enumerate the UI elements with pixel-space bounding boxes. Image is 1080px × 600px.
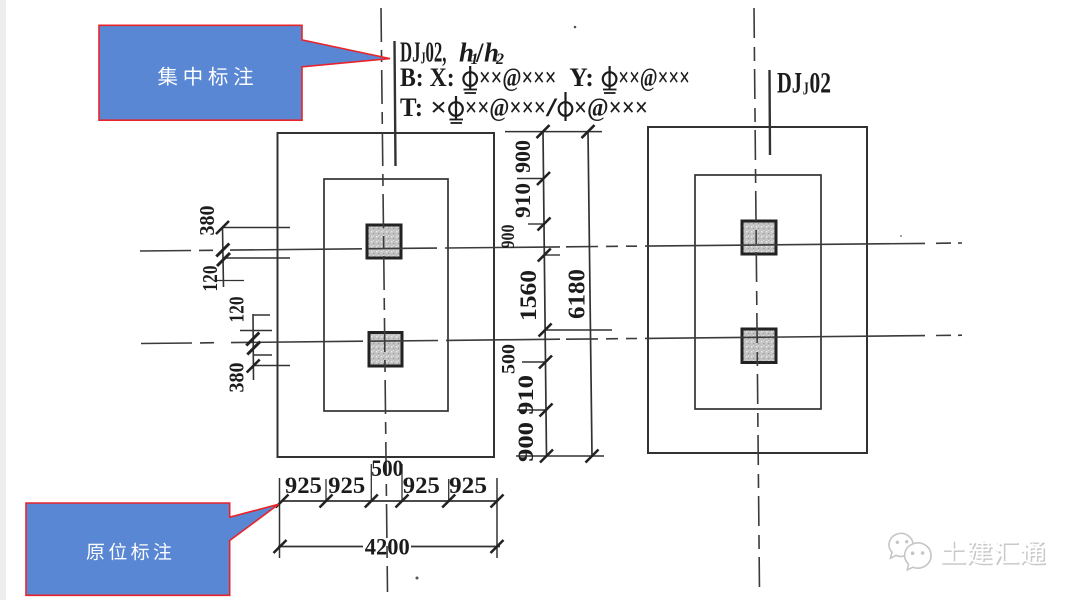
watermark text 土建汇通 [942,542,1046,566]
svg-text:925: 925 [403,473,440,498]
right column section 2 [742,329,776,363]
left column section 2 [369,333,402,367]
svg-text:6180: 6180 [565,269,591,319]
callout text 集中标注 [158,67,253,86]
extension line top [505,131,602,133]
extension line left [279,478,281,558]
svg-text:×@×××: ×@××× [574,93,648,122]
svg-text:××@×××: ××@××× [618,63,690,92]
dimension line overall 6180 [588,132,592,456]
svg-text:J: J [803,79,809,99]
callout box in-situ annotation [26,503,279,595]
dimension line 925 chain [282,500,497,502]
right column section 1 [742,221,776,254]
callout text 原位标注 [87,543,172,561]
svg-text:××@×××: ××@××× [479,63,557,92]
dimension line segmented chain [543,132,547,456]
svg-text:B: X:: B: X: [400,63,455,92]
middle dimension chain lines [505,132,612,456]
column 2 offset dimensions [240,314,290,380]
svg-text:910: 910 [513,375,538,415]
svg-text:T:: T: [400,93,423,122]
svg-text:02: 02 [810,67,832,100]
svg-text:Y:: Y: [569,63,593,92]
svg-text:××@×××: ××@××× [465,93,546,122]
leader line of right footing label [768,70,771,155]
concentrated annotation line 1: DJ J02, h1/h2 [400,38,504,69]
vertical centerline right axis [754,8,760,592]
extension nubs [325,479,327,501]
svg-text:910: 910 [510,183,535,218]
svg-text:1560: 1560 [516,270,541,321]
bottom dimension lines left footing [278,464,500,558]
svg-text:380: 380 [195,206,219,236]
svg-text:900: 900 [513,422,538,462]
vertical centerline left axis [381,8,388,592]
tick marks bottom dimensions [274,495,504,554]
dimension line 4200 [278,546,363,548]
right footing label DJ J02 [777,67,831,100]
concentrated annotation line 3: T: xpxx@xxx/px@xxx [400,92,648,123]
svg-text:500: 500 [499,344,520,374]
left footing outer edge [278,133,495,457]
horizontal centerline axis 1 [140,243,962,251]
right footing outer edge [648,127,867,453]
svg-text:×: × [430,93,447,122]
extension line bottom [516,455,604,457]
svg-text:925: 925 [328,473,365,498]
svg-text:900: 900 [510,140,535,173]
svg-text:500: 500 [371,456,403,481]
leader line of concentrated annotation [395,41,396,166]
scan speck dots [574,26,577,29]
left footing inner step edge [324,179,448,411]
svg-text:380: 380 [225,363,249,393]
svg-text:/: / [544,93,558,122]
extension to right footing column [546,329,612,331]
callout box concentrated annotation [99,25,390,120]
svg-text:DJ: DJ [777,67,802,100]
horizontal centerline axis 2 [141,335,962,343]
svg-text:900: 900 [498,225,519,249]
svg-text:925: 925 [449,473,487,498]
tick nub lines left of chain [517,178,544,180]
watermark wechat logo [889,533,931,569]
right footing inner step edge [695,175,821,409]
svg-text:925: 925 [285,473,322,498]
svg-text:120: 120 [198,266,222,292]
svg-text:4200: 4200 [365,535,410,561]
column 1 offset dimensions [216,228,290,288]
left column section 1 [367,225,401,258]
concentrated annotation line 2: B: X: pxx@xxx Y: pxx@xxx [400,63,690,93]
tick marks middle chain [537,125,599,462]
scan edge shading left [0,0,6,600]
svg-text:120: 120 [225,297,249,323]
extension line right [496,478,498,558]
